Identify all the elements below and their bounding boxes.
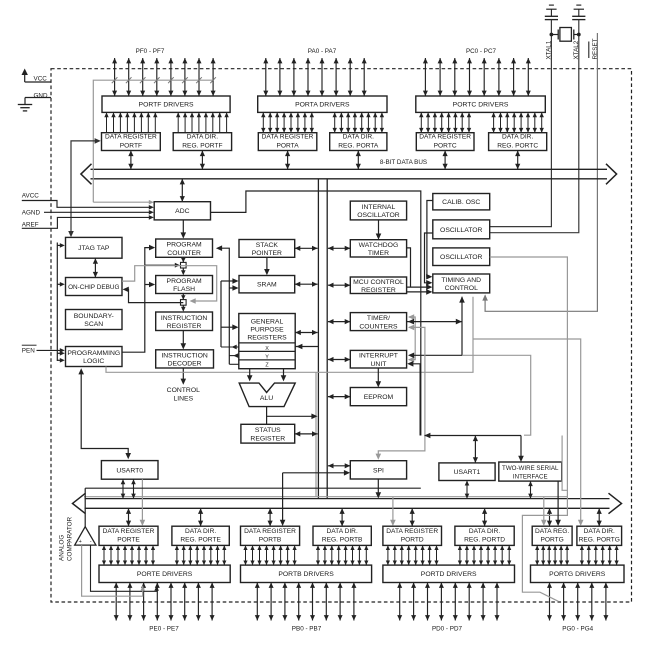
arrow bus to DATA REGISTER PORTD <box>411 508 413 526</box>
svg-text:GND: GND <box>34 92 48 99</box>
gray wire timing net to two-wire serial <box>462 355 531 435</box>
svg-text:REG. PORTF: REG. PORTF <box>182 142 222 149</box>
svg-text:TIMER/: TIMER/ <box>367 315 390 322</box>
wire ALU output to bus and status register <box>266 407 268 425</box>
svg-text:PORTF DRIVERS: PORTF DRIVERS <box>139 102 194 109</box>
arrow JTAG TAP to ON-CHIP DEBUG <box>94 258 96 277</box>
wire into JTAG TAP <box>57 244 61 246</box>
arrows PORTC drivers to data direction register <box>493 112 495 132</box>
TIMING AND CONTROL box <box>433 274 490 293</box>
svg-text:DATA DIR.: DATA DIR. <box>187 134 218 141</box>
svg-text:PD0 - PD7: PD0 - PD7 <box>432 626 463 633</box>
gray debug wire around program flash <box>122 266 217 301</box>
left service bus vertical wire <box>56 243 58 362</box>
PORTA external pin arrows <box>265 58 267 96</box>
DATA DIR. REG. PORTD box <box>455 526 514 545</box>
DATA REGISTER PORTC box <box>416 133 474 151</box>
gray analog clock wire into ADC <box>93 201 150 203</box>
svg-text:PF0 - PF7: PF0 - PF7 <box>136 48 165 55</box>
MCU CONTROL REGISTER box <box>350 277 406 294</box>
OSCILLATOR box lower U4 <box>433 248 490 266</box>
wire programming logic to USART0 <box>81 370 128 456</box>
svg-text:UNIT: UNIT <box>371 361 387 368</box>
register file Z row <box>239 359 295 361</box>
BOUNDARY-SCAN box <box>66 310 123 330</box>
wire XTAL2 to oscillator <box>490 20 579 233</box>
svg-text:PORTC: PORTC <box>434 142 457 149</box>
svg-text:CALIB. OSC: CALIB. OSC <box>442 199 480 206</box>
USART1 box <box>439 463 495 481</box>
svg-text:PORTE DRIVERS: PORTE DRIVERS <box>137 571 193 578</box>
svg-text:AGND: AGND <box>22 210 41 217</box>
svg-text:PE0 - PE7: PE0 - PE7 <box>149 626 179 633</box>
ON-CHIP DEBUG box <box>66 278 123 296</box>
arrow bus to X register row <box>295 346 318 348</box>
capacitor on XTAL1 <box>549 4 554 6</box>
wire Z register stub <box>229 363 239 365</box>
svg-text:INTERNAL: INTERNAL <box>362 204 396 211</box>
svg-text:PORTA DRIVERS: PORTA DRIVERS <box>295 102 350 109</box>
svg-text:INTERFACE: INTERFACE <box>513 473 548 480</box>
svg-text:+: + <box>79 539 82 545</box>
arrow general purpose registers to bus <box>295 332 317 334</box>
PORTC external pin arrows <box>424 58 426 96</box>
wire program counter to flash mux <box>182 257 184 262</box>
PORTA DRIVERS box <box>258 96 387 112</box>
svg-text:REGISTERS: REGISTERS <box>247 335 287 342</box>
GENERAL PURPOSE REGISTERS box <box>239 314 295 369</box>
comparator negative input wire <box>91 545 157 591</box>
svg-text:REGISTER: REGISTER <box>167 323 202 330</box>
arrows PORTB drivers to external pins <box>256 583 258 621</box>
wire RESET to timing and control <box>485 33 597 311</box>
gray clock distribution wire above bottom bus <box>84 496 567 498</box>
svg-text:AVCC: AVCC <box>22 193 39 200</box>
svg-text:DATA REG.: DATA REG. <box>535 528 569 535</box>
arrows PORTG drivers to external pins <box>549 583 551 621</box>
arrow bus to DATA DIR REG PORTG <box>598 508 600 526</box>
PORTF external pin arrows <box>114 58 116 96</box>
PORTC DRIVERS box <box>416 96 546 112</box>
bottom data bus (horizontal bus) <box>85 498 610 500</box>
STATUS REGISTER box <box>241 424 295 443</box>
svg-text:USART1: USART1 <box>454 469 481 476</box>
STACK POINTER box <box>239 240 295 258</box>
wire pointer registers to program counter <box>219 248 229 364</box>
PORTD DRIVERS box <box>383 565 515 582</box>
PORTG DRIVERS box <box>531 565 625 582</box>
arrow interrupt unit to EEPROM <box>377 368 379 384</box>
wire two-wire serial interface to data register PORTG <box>557 481 559 523</box>
svg-text:INTERRUPT: INTERRUPT <box>359 353 398 360</box>
DATA DIR. REG. PORTG box <box>577 526 622 545</box>
arrows data register PORTE to drivers <box>103 545 105 565</box>
svg-text:DATA REGISTER: DATA REGISTER <box>103 528 155 535</box>
svg-text:OSCILLATOR: OSCILLATOR <box>357 212 400 219</box>
wire Y register stub <box>229 355 239 357</box>
svg-text:SRAM: SRAM <box>257 282 277 289</box>
arrows data register PORTD to drivers <box>387 545 389 565</box>
arrow bus to DATA REGISTER PORTG <box>549 508 551 526</box>
PORTE DRIVERS box <box>99 565 230 582</box>
svg-text:CONTROL: CONTROL <box>167 387 200 394</box>
svg-text:SCAN: SCAN <box>84 321 103 328</box>
flash address mux square <box>181 262 187 268</box>
svg-text:INSTRUCTION: INSTRUCTION <box>161 352 208 359</box>
arrows data dir reg PORTG to drivers <box>581 545 583 565</box>
svg-text:REG. PORTD: REG. PORTD <box>464 537 505 544</box>
wire AGND to ADC <box>44 211 151 213</box>
wire calib osc to timing and control <box>427 201 433 277</box>
svg-text:USART0: USART0 <box>116 467 143 474</box>
DATA DIR. REG. PORTF box <box>173 133 231 151</box>
svg-text:DATA DIR.: DATA DIR. <box>327 528 358 535</box>
svg-text:DATA REGISTER: DATA REGISTER <box>419 134 471 141</box>
arrow DATA REGISTER PORTC to data bus <box>444 151 446 170</box>
chip dashed boundary <box>51 69 632 602</box>
wire to USART1 and two-wire serial interface <box>425 435 522 437</box>
wire PEN to programming logic <box>37 349 62 351</box>
wire mcu control to timing and control lower <box>407 291 429 293</box>
arrow into flash address mux from programming logic <box>145 264 177 266</box>
svg-text:PG0 - PG4: PG0 - PG4 <box>562 626 593 633</box>
arrow EEPROM to bus <box>328 396 350 398</box>
arrow ADC to PROGRAM COUNTER <box>182 220 184 235</box>
svg-text:DATA REGISTER: DATA REGISTER <box>244 528 296 535</box>
GND wire <box>25 97 51 99</box>
EEPROM box <box>350 388 406 406</box>
arrows data dir reg PORTE to drivers <box>176 545 178 565</box>
arrow decoder to control lines <box>182 368 184 382</box>
DATA REGISTER PORTG box <box>532 526 572 545</box>
8-bit data bus (top horizontal bus) <box>91 168 608 170</box>
arrow interrupt unit to bus <box>328 359 350 361</box>
svg-text:PORTD: PORTD <box>401 537 424 544</box>
gray branch to data register PORTD <box>392 497 394 523</box>
svg-text:PORTF: PORTF <box>120 142 142 149</box>
PROGRAMMING LOGIC box <box>66 347 123 367</box>
arrows PORTF drivers to data direction register <box>177 112 179 132</box>
VCC supply arrow <box>24 74 26 82</box>
arrow into program flash from debug line <box>145 284 152 286</box>
DATA DIR. REG. PORTC box <box>489 133 547 151</box>
arrow mcu control register to bus <box>328 284 350 286</box>
wire into PROGRAMMING LOGIC lower <box>57 359 61 361</box>
wire instruction mux to on-chip debug <box>126 289 183 302</box>
wire into PROGRAMMING LOGIC upper <box>57 352 61 354</box>
wire watchdog to timing and control <box>407 248 411 287</box>
gray wire timer net to PORTG direction register <box>473 339 581 523</box>
arrow two-wire serial interface to bottom bus <box>530 481 532 499</box>
DATA DIR. REG. PORTB box <box>313 526 371 545</box>
arrow to USART1 <box>474 436 476 463</box>
svg-text:COMPARATOR: COMPARATOR <box>67 516 74 561</box>
svg-text:JTAG TAP: JTAG TAP <box>78 245 110 252</box>
ALU <box>239 383 295 407</box>
WATCHDOG TIMER box <box>350 240 406 257</box>
TIMER/COUNTERS box <box>350 313 406 331</box>
svg-text:LOGIC: LOGIC <box>83 358 104 365</box>
svg-text:REG. PORTC: REG. PORTC <box>497 142 538 149</box>
gray wire USART0 to data register PORTE <box>141 479 143 523</box>
svg-text:REG. PORTB: REG. PORTB <box>322 537 363 544</box>
svg-text:PORTE: PORTE <box>117 537 140 544</box>
svg-text:VCC: VCC <box>34 75 48 82</box>
svg-text:OSCILLATOR: OSCILLATOR <box>440 227 483 234</box>
arrow bus to DATA DIR REG PORTD <box>484 508 486 526</box>
svg-text:PORTG DRIVERS: PORTG DRIVERS <box>549 571 606 578</box>
instruction mux square <box>181 300 187 306</box>
svg-text:PB0 - PB7: PB0 - PB7 <box>292 626 322 633</box>
wire timing and control down to interrupt unit <box>413 297 462 356</box>
svg-text:BOUNDARY-: BOUNDARY- <box>74 313 114 320</box>
register file Y row <box>239 350 295 352</box>
ground symbol <box>18 104 32 106</box>
gray control bus riser <box>315 372 317 496</box>
wire mcu control to timing and control upper <box>407 286 429 288</box>
arrow DATA REGISTER PORTA to data bus <box>287 151 289 170</box>
INSTRUCTION DECODER box <box>156 350 214 368</box>
ADC box <box>154 202 210 220</box>
INTERRUPT UNIT box <box>350 350 406 368</box>
DATA REGISTER PORTF box <box>102 133 161 151</box>
svg-text:DATA REGISTER: DATA REGISTER <box>105 134 157 141</box>
arrow SPI to bottom bus <box>377 479 379 495</box>
svg-text:RESET: RESET <box>592 38 599 59</box>
gray control lines wire <box>106 297 473 373</box>
svg-text:PORTB: PORTB <box>259 537 282 544</box>
arrow bus to DATA DIR REG PORTE <box>200 508 202 526</box>
svg-text:CONTROL: CONTROL <box>445 285 478 292</box>
arrow SRAM to bus <box>295 283 318 285</box>
svg-text:PORTC DRIVERS: PORTC DRIVERS <box>453 102 509 109</box>
arrow bus to DATA REGISTER PORTB <box>269 508 271 526</box>
long analog wire above bottom bus <box>85 487 421 489</box>
svg-text:OSCILLATOR: OSCILLATOR <box>440 254 483 261</box>
arrow DATA DIR REG PORTA to data bus <box>357 151 359 170</box>
svg-text:STACK: STACK <box>256 242 279 249</box>
SPI box <box>350 461 406 479</box>
gray wire oscillator to TOSC pins <box>490 257 568 601</box>
svg-text:DATA DIR.: DATA DIR. <box>584 528 615 535</box>
CALIB. OSC box <box>433 194 490 210</box>
svg-text:LINES: LINES <box>173 395 193 402</box>
svg-text:AREF: AREF <box>22 222 39 229</box>
DATA REGISTER PORTE box <box>99 526 158 545</box>
arrows data dir reg PORTB to drivers <box>317 545 319 565</box>
wire X register stub <box>221 346 239 348</box>
arrows PORTA drivers to data direction register <box>334 112 336 132</box>
svg-text:REG. PORTE: REG. PORTE <box>180 537 221 544</box>
svg-text:EEPROM: EEPROM <box>364 394 394 401</box>
central data bus vertical line right <box>326 179 328 499</box>
comparator positive input wire <box>82 545 143 596</box>
svg-text:PORTB DRIVERS: PORTB DRIVERS <box>278 571 334 578</box>
svg-text:ADC: ADC <box>175 208 189 215</box>
svg-text:REG. PORTG: REG. PORTG <box>579 537 620 544</box>
svg-text:DATA REGISTER: DATA REGISTER <box>262 134 314 141</box>
svg-text:PORTG: PORTG <box>540 537 563 544</box>
svg-text:DATA DIR.: DATA DIR. <box>343 134 374 141</box>
wire into ON-CHIP DEBUG <box>57 283 61 285</box>
wire oscillator to timing and control <box>425 233 433 283</box>
svg-text:COUNTER: COUNTER <box>167 250 201 257</box>
arrows data dir reg PORTD to drivers <box>459 545 461 565</box>
svg-text:TWO-WIRE SERIAL: TWO-WIRE SERIAL <box>502 465 559 472</box>
arrow internal oscillator to watchdog timer <box>378 220 380 237</box>
USART0 box <box>101 461 158 480</box>
PORTB DRIVERS box <box>241 565 372 582</box>
svg-text:PORTD DRIVERS: PORTD DRIVERS <box>421 571 477 578</box>
svg-text:REGISTER: REGISTER <box>361 287 396 294</box>
OSCILLATOR box upper U3 <box>433 220 490 239</box>
arrow bus to DATA REGISTER PORTE <box>128 508 130 526</box>
arrow stack pointer to SRAM <box>266 257 268 272</box>
wire interrupt unit to serial net <box>410 364 420 436</box>
svg-text:PROGRAM: PROGRAM <box>167 242 202 249</box>
wire JTAG to DATA REGISTER PORTF <box>71 141 98 234</box>
arrow USART1 to bottom bus <box>466 481 468 499</box>
svg-text:DATA DIR.: DATA DIR. <box>502 134 533 141</box>
svg-text:SPI: SPI <box>373 467 384 474</box>
svg-text:WATCHDOG: WATCHDOG <box>359 242 399 249</box>
double arrow timer/counters to timing vertical <box>407 321 462 323</box>
svg-text:XTAL2: XTAL2 <box>573 40 580 59</box>
arrow watchdog timer to bus <box>328 247 350 249</box>
svg-text:PEN: PEN <box>22 348 35 355</box>
svg-text:PORTA: PORTA <box>276 142 299 149</box>
svg-text:ANALOG: ANALOG <box>59 535 66 561</box>
PROGRAM FLASH box <box>156 276 213 294</box>
arrow pointer vertical to general purpose registers <box>221 326 235 328</box>
analog comparator triangle <box>75 527 96 545</box>
arrows PORTD drivers to external pins <box>399 583 401 621</box>
arrow instruction register to decoder <box>182 331 184 347</box>
INSTRUCTION REGISTER box <box>156 312 213 331</box>
arrows PORTC drivers to data register <box>420 112 422 132</box>
svg-text:PROGRAM: PROGRAM <box>167 278 202 285</box>
arrow to two-wire serial interface <box>520 436 522 459</box>
gray branch from clock rail to data reg PORTG <box>543 497 545 523</box>
DATA DIR. REG. PORTA box <box>330 133 387 151</box>
wire AVCC to ADC <box>22 201 151 208</box>
svg-text:PURPOSE: PURPOSE <box>250 327 284 334</box>
arrows data register PORTB to drivers <box>245 545 247 565</box>
svg-text:POINTER: POINTER <box>252 250 282 257</box>
svg-text:8-BIT DATA BUS: 8-BIT DATA BUS <box>380 159 427 166</box>
PORTF DRIVERS box <box>102 96 230 112</box>
arrows PORTA drivers to data register <box>262 112 264 132</box>
svg-text:ALU: ALU <box>260 395 273 402</box>
svg-text:COUNTERS: COUNTERS <box>359 323 398 330</box>
svg-text:PC0 - PC7: PC0 - PC7 <box>466 48 497 55</box>
wire on-chip debug to program counter <box>122 248 152 353</box>
arrows USART0 to bottom bus <box>122 479 124 498</box>
arrows PORTF drivers to data register <box>106 112 108 132</box>
arrows general purpose registers to ALU <box>249 369 251 379</box>
svg-text:XTAL1: XTAL1 <box>546 40 553 59</box>
arrow DATA DIR REG PORTC to data bus <box>517 151 519 170</box>
arrow DATA DIR REG PORTF to data bus <box>201 151 203 170</box>
wire SPI to PORTB pins <box>283 472 347 474</box>
arrow stack pointer to bus <box>295 247 318 249</box>
svg-text:DATA DIR.: DATA DIR. <box>469 528 500 535</box>
register file X row <box>239 342 295 344</box>
arrow DATA REGISTER PORTF to data bus <box>130 151 132 170</box>
crystal between XTAL1 and XTAL2 <box>560 28 572 42</box>
gray analog slash wire over PORTF pins <box>93 80 213 202</box>
JTAG TAP box U-JTAG <box>66 237 123 258</box>
wire comparator output to bus <box>84 488 86 527</box>
DATA REGISTER PORTD box <box>383 526 442 545</box>
PROGRAM COUNTER box <box>156 239 213 257</box>
svg-text:DECODER: DECODER <box>168 361 202 368</box>
svg-text:PA0 - PA7: PA0 - PA7 <box>308 48 337 55</box>
svg-text:FLASH: FLASH <box>173 286 195 293</box>
svg-text:REGISTER: REGISTER <box>250 435 285 442</box>
capacitor on XTAL2 <box>576 4 581 6</box>
svg-text:REG. PORTA: REG. PORTA <box>338 142 379 149</box>
svg-text:DATA REGISTER: DATA REGISTER <box>386 528 438 535</box>
svg-text:MCU CONTROL: MCU CONTROL <box>353 279 404 286</box>
svg-text:STATUS: STATUS <box>255 427 281 434</box>
central data bus vertical line left <box>317 179 319 499</box>
arrow bus down to program counter spine <box>181 179 183 202</box>
svg-text:TIMING AND: TIMING AND <box>441 277 481 284</box>
arrows PORTE drivers to external pins <box>115 583 117 621</box>
wire AREF to ADC <box>22 217 151 228</box>
svg-text:ON-CHIP DEBUG: ON-CHIP DEBUG <box>68 284 119 291</box>
arrow bus to DATA DIR REG PORTB <box>341 508 343 526</box>
wire flash to instruction mux <box>182 294 184 300</box>
arrow status register to bus <box>295 433 318 435</box>
svg-text:PROGRAMMING: PROGRAMMING <box>67 350 120 357</box>
SRAM box <box>239 276 295 293</box>
gray TOSC wire to PORTG pins <box>562 436 567 491</box>
svg-text:-: - <box>90 539 92 545</box>
INTERNAL OSCILLATOR box <box>350 201 406 220</box>
gray wire feeding timer/counters and interrupt unit <box>409 317 415 360</box>
arrow SPI to bus <box>328 465 350 467</box>
wire XTAL1 to oscillator <box>490 20 552 227</box>
wire ADC clock net <box>211 191 421 436</box>
gray wire timer to SPI <box>378 327 425 456</box>
TWO-WIRE SERIAL INTERFACE box <box>499 462 562 481</box>
svg-text:DATA DIR.: DATA DIR. <box>185 528 216 535</box>
DATA REGISTER PORTB box <box>241 526 300 545</box>
svg-text:GENERAL: GENERAL <box>251 318 284 325</box>
arrows data register PORTG to drivers <box>536 545 538 565</box>
arrow timer/counters to bus <box>328 321 350 323</box>
wire pointer register X to SRAM <box>221 280 235 282</box>
DATA DIR. REG. PORTE box <box>172 526 229 545</box>
svg-text:INSTRUCTION: INSTRUCTION <box>161 315 208 322</box>
svg-text:TIMER: TIMER <box>368 250 389 257</box>
DATA REGISTER PORTA box <box>258 133 317 151</box>
